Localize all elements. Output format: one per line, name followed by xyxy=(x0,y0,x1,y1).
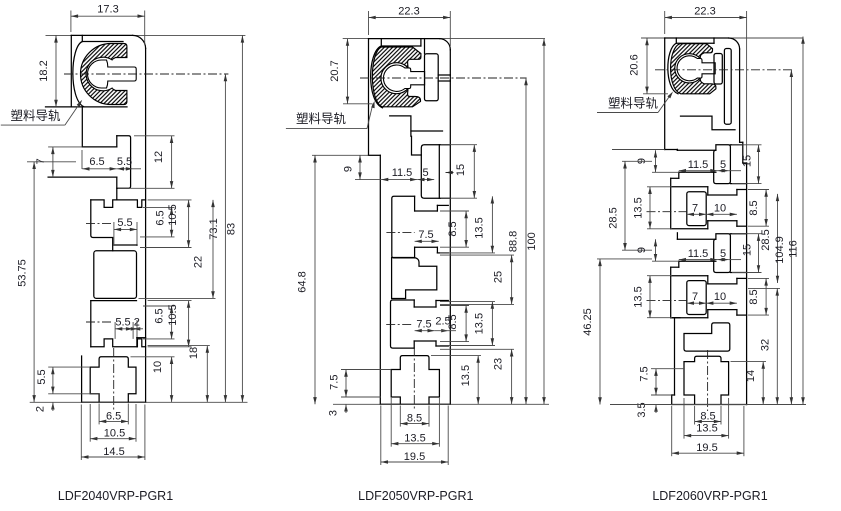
profile P1 block C square xyxy=(94,251,137,299)
profile P3 bottom cross slot xyxy=(684,356,729,404)
svg-text:11.5: 11.5 xyxy=(392,167,413,179)
dim 8.5 tooth3 P2 xyxy=(440,306,469,342)
plastic guide rail hatched C-section P2 xyxy=(372,47,424,107)
svg-text:7: 7 xyxy=(35,158,47,164)
dim 64.8 P2 xyxy=(297,155,317,404)
svg-text:3: 3 xyxy=(328,410,340,416)
svg-text:7.5: 7.5 xyxy=(639,366,651,381)
profile P1 block B inner slot xyxy=(114,222,137,246)
profile P3 housing xyxy=(668,38,714,94)
profile P1 block B outline xyxy=(91,200,146,251)
profile P1 T-slot lower lip and 7-dim extension xyxy=(48,177,117,200)
svg-text:13.5: 13.5 xyxy=(474,313,486,334)
profile P1 block D outline xyxy=(91,301,146,347)
dim 83 P1 xyxy=(226,35,245,402)
svg-text:5.5: 5.5 xyxy=(117,156,132,168)
svg-text:28.5: 28.5 xyxy=(608,207,620,228)
dim 3 P2 xyxy=(328,404,348,416)
centerline P1 block B xyxy=(86,223,113,225)
svg-text:14: 14 xyxy=(745,370,757,382)
dim 17.3 top width P1 xyxy=(71,3,145,45)
dim 5.5 and 2 block D P1 xyxy=(115,317,143,331)
profile P2 right side slot block xyxy=(421,145,450,199)
svg-text:15: 15 xyxy=(742,244,754,256)
svg-text:9: 9 xyxy=(343,166,355,172)
centerline P2 cross vertical xyxy=(413,347,415,410)
svg-text:28.5: 28.5 xyxy=(760,229,772,250)
profile P3 left edge between units xyxy=(671,150,680,318)
dim 22.3 P3 xyxy=(665,5,747,160)
dim 18.2 P1 xyxy=(38,35,58,107)
svg-text:5: 5 xyxy=(720,159,726,171)
dim 2 P1 xyxy=(35,402,55,412)
profile P1 top edge and 17.3/83 extension line xyxy=(46,35,246,48)
svg-text:7: 7 xyxy=(692,202,698,214)
dim 15 P2 xyxy=(441,145,477,199)
profile P2 step under rail section xyxy=(369,155,381,404)
bottom reference line P3 xyxy=(610,404,806,406)
dim 22.3 P2 xyxy=(369,5,451,46)
dim 15 unit2 P3 xyxy=(732,234,762,273)
dim 104.9 P3 xyxy=(774,70,793,405)
dim 88.8 P2 xyxy=(508,78,528,404)
svg-text:10: 10 xyxy=(714,291,726,303)
dim 116 P3 xyxy=(788,37,805,405)
dim 100 P2 xyxy=(526,39,546,405)
svg-text:10.5: 10.5 xyxy=(104,428,125,440)
dim 20.7 P2 xyxy=(329,39,372,104)
dim 13.5 unit1 P3 xyxy=(633,187,673,229)
profile P1 T-slot upper lip xyxy=(82,136,117,147)
svg-text:83: 83 xyxy=(226,223,238,235)
dim 8.5 tooth1 P2 xyxy=(440,211,469,247)
dim 10 P1 xyxy=(131,357,175,403)
dim 15 unit1 P3 xyxy=(732,145,762,184)
svg-text:20.6: 20.6 xyxy=(629,54,641,75)
svg-text:17.3: 17.3 xyxy=(97,3,118,15)
svg-text:6.5: 6.5 xyxy=(155,210,167,225)
svg-text:25: 25 xyxy=(493,271,505,283)
dim 53.75 P1 xyxy=(17,162,77,402)
dim 7 and 10 unit1 P3 xyxy=(687,202,737,216)
svg-text:13.5: 13.5 xyxy=(696,423,717,435)
profile P1 T-slot cavity xyxy=(117,136,131,189)
dim 9 unit2 P3 xyxy=(636,239,679,261)
dim 7 P1 xyxy=(35,147,82,177)
centerline P2 keyhole horizontal xyxy=(360,77,527,79)
svg-text:22.3: 22.3 xyxy=(398,5,419,17)
dim 8.5 bottom P3 xyxy=(695,406,721,425)
dim 6.5 bottom P1 xyxy=(99,404,128,425)
profile P2 tooth3 cavity xyxy=(391,300,415,348)
svg-text:22.3: 22.3 xyxy=(694,5,715,17)
dim 11.5 and 5 unit1 P3 xyxy=(679,159,741,173)
profile P2 top edge and 100 extension xyxy=(343,39,545,50)
dim 9 P2 xyxy=(312,155,381,179)
svg-text:19.5: 19.5 xyxy=(696,442,717,454)
svg-text:7.5: 7.5 xyxy=(418,229,433,241)
svg-text:13.5: 13.5 xyxy=(474,217,486,238)
centerline P2 tooth1 xyxy=(386,231,414,233)
svg-text:6.5: 6.5 xyxy=(89,156,104,168)
dim 7.5 and 2.5 tooth3 P2 xyxy=(415,316,456,333)
svg-text:116: 116 xyxy=(788,240,800,258)
svg-text:13.5: 13.5 xyxy=(404,433,425,445)
profile P2 under-rail steps xyxy=(390,116,443,155)
dim 46.25 P3 xyxy=(582,259,652,405)
svg-text:19.5: 19.5 xyxy=(404,451,425,463)
svg-text:88.8: 88.8 xyxy=(508,231,520,252)
centerline P3 cross vertical xyxy=(707,350,709,411)
profile P1 bottom edge xyxy=(82,401,146,403)
svg-text:5.5: 5.5 xyxy=(115,317,130,329)
svg-text:5: 5 xyxy=(422,167,428,179)
svg-text:8.5: 8.5 xyxy=(700,411,715,423)
svg-text:13.5: 13.5 xyxy=(460,365,472,386)
part number label P2 xyxy=(358,489,473,503)
dim 32 P3 xyxy=(748,288,780,404)
svg-text:LDF2040VRP-PGR1: LDF2040VRP-PGR1 xyxy=(58,489,173,503)
svg-text:8.5: 8.5 xyxy=(447,221,459,236)
dim 5.5 bottom left P1 xyxy=(36,367,100,394)
profile P3 tooth unit 2 xyxy=(647,233,747,318)
dim 13.5 bottom P2 xyxy=(391,398,439,447)
svg-text:8.5: 8.5 xyxy=(447,314,459,329)
profile P3 under-rail steps xyxy=(681,116,736,130)
bottom reference line P1 xyxy=(30,401,248,403)
svg-text:LDF2050VRP-PGR1: LDF2050VRP-PGR1 xyxy=(358,489,473,503)
dim 13.5 bottom P3 xyxy=(684,398,729,439)
dim 7.5 bottom P3 xyxy=(639,366,685,395)
dim 13.5 stem P2 xyxy=(431,356,481,405)
centerline P2 tooth3 xyxy=(386,323,413,325)
svg-text:22: 22 xyxy=(193,256,205,268)
dim 6.5 block B P1 xyxy=(140,207,175,237)
svg-text:100: 100 xyxy=(526,232,538,250)
profile P3 right edge lower xyxy=(746,163,748,405)
profile P2 tooth2 block xyxy=(392,258,437,299)
svg-text:11.5: 11.5 xyxy=(688,159,709,171)
dim 9 unit1 P3 xyxy=(612,150,679,173)
profile P1 left ledge edge xyxy=(81,107,83,147)
part number label P3 xyxy=(652,489,767,503)
svg-text:6.5: 6.5 xyxy=(154,308,166,323)
dim 73.1 P1 xyxy=(208,74,227,402)
dim 8.5 bottom P2 xyxy=(400,406,429,427)
profile P3 keyhole T channel and side channel xyxy=(714,49,731,125)
dim 8.5 unit2 P3 xyxy=(748,278,769,315)
svg-text:7.5: 7.5 xyxy=(416,318,431,330)
svg-text:2: 2 xyxy=(35,406,47,412)
profile P3 left edge upper xyxy=(664,38,666,150)
centerline P1 keyhole horizontal xyxy=(64,73,228,75)
svg-text:46.25: 46.25 xyxy=(582,308,594,336)
profile P1 block D inner slot xyxy=(115,320,137,339)
svg-text:10.5: 10.5 xyxy=(167,204,179,225)
svg-text:10: 10 xyxy=(714,202,726,214)
dim 18 P1 xyxy=(148,346,210,403)
profile P3 tooth unit 1 xyxy=(647,145,747,229)
profile P2 right edge xyxy=(449,50,451,405)
svg-text:15: 15 xyxy=(455,164,467,176)
profile P1 bottom cross slot xyxy=(90,357,136,403)
svg-text:5.5: 5.5 xyxy=(36,369,48,384)
label plastic guide rail P2 xyxy=(286,101,375,129)
profile P2 tooth1 mouth lips xyxy=(415,205,449,253)
svg-text:18.2: 18.2 xyxy=(38,60,50,81)
svg-text:13.5: 13.5 xyxy=(633,197,645,218)
svg-text:104.9: 104.9 xyxy=(774,236,786,264)
svg-text:23: 23 xyxy=(493,358,505,370)
svg-text:7: 7 xyxy=(692,291,698,303)
dim 28.5 left P3 xyxy=(608,161,653,250)
dim 19.5 bottom P2 xyxy=(381,406,448,466)
svg-text:7.5: 7.5 xyxy=(328,375,340,390)
plastic guide rail hatched C-section P1 xyxy=(80,43,136,104)
dim 10.5 block D P1 xyxy=(148,301,192,347)
dim 7.5 bottom left P2 xyxy=(328,370,391,398)
dim 22 P1 xyxy=(139,200,216,299)
profile P2 bottom edge xyxy=(380,403,450,405)
svg-text:18: 18 xyxy=(188,347,200,359)
profile P1 bottom left edge xyxy=(82,338,146,403)
profile P2 left edge upper xyxy=(368,39,370,156)
dim 28.5 right P3 xyxy=(760,194,779,283)
dim 23 P2 xyxy=(440,349,514,404)
svg-text:9: 9 xyxy=(636,247,648,253)
svg-text:15: 15 xyxy=(742,155,754,167)
dim 10.5 block B P1 xyxy=(140,200,192,248)
part number label P1 xyxy=(58,489,173,503)
profile P1 right edge xyxy=(145,48,147,402)
profile P2 tooth3 mouth lips xyxy=(414,301,448,347)
dim 6.5 and 5.5 slot P1 xyxy=(82,150,141,171)
svg-text:12: 12 xyxy=(153,151,165,163)
dim 19.5 bottom P3 xyxy=(672,406,744,456)
dim 11.5 and 5 P2 xyxy=(381,167,453,181)
dim 13.5 tooth1 P2 xyxy=(440,196,495,253)
dim 12 P1 xyxy=(118,136,175,189)
centerline P1 bottom cross vertical xyxy=(113,348,115,411)
dim 25 P2 xyxy=(440,255,514,304)
label plastic guide rail P1 xyxy=(1,100,82,125)
profile P2 housing xyxy=(371,39,421,108)
profile P1 left edge upper section xyxy=(70,35,72,107)
svg-text:14.5: 14.5 xyxy=(103,446,124,458)
dim 5.5 block B P1 xyxy=(114,217,137,231)
svg-text:32: 32 xyxy=(760,339,772,351)
svg-text:LDF2060VRP-PGR1: LDF2060VRP-PGR1 xyxy=(652,489,767,503)
plastic guide rail hatched C-section P3 xyxy=(671,44,716,94)
profile P1 upper section bottom step line xyxy=(46,106,128,108)
dim 11.5 and 5 unit2 P3 xyxy=(679,248,741,262)
centerline P1 block D xyxy=(86,321,113,323)
label plastic guide rail P3 xyxy=(597,92,673,113)
profile P1 guide-rail housing xyxy=(73,35,123,106)
profile P2 keyhole side channel xyxy=(421,39,450,101)
svg-text:13.5: 13.5 xyxy=(633,286,645,307)
profile P3 bottom left edge xyxy=(672,318,675,405)
svg-text:5.5: 5.5 xyxy=(117,217,132,229)
dim 7 and 10 unit2 P3 xyxy=(687,291,737,305)
svg-text:73.1: 73.1 xyxy=(208,218,220,239)
svg-text:11.5: 11.5 xyxy=(688,248,709,260)
dim 14.5 bottom P1 xyxy=(81,405,145,461)
svg-text:塑料导轨: 塑料导轨 xyxy=(296,111,347,126)
svg-text:53.75: 53.75 xyxy=(17,259,29,287)
dim 6.5 block D P1 xyxy=(143,306,175,339)
svg-text:2: 2 xyxy=(134,317,140,329)
svg-text:64.8: 64.8 xyxy=(297,271,309,292)
centerline P3 keyhole horizontal xyxy=(655,69,794,71)
dim 13.5 tooth3 P2 xyxy=(440,302,495,346)
dim 10.5 bottom P1 xyxy=(90,404,136,442)
profile P3 top edge and 116 extension xyxy=(641,38,803,49)
dim 7.5 tooth1 P2 xyxy=(415,229,439,243)
svg-text:8.5: 8.5 xyxy=(748,289,760,304)
dim 8.5 unit1 P3 xyxy=(748,190,769,227)
svg-text:10: 10 xyxy=(152,361,164,373)
profile P2 bottom cross slot xyxy=(391,356,439,405)
svg-text:8.5: 8.5 xyxy=(407,413,422,425)
profile P3 right edge upper xyxy=(740,49,747,163)
profile P3 L-shaped block xyxy=(684,323,730,351)
dim 3.5 P3 xyxy=(636,402,658,417)
svg-text:8.5: 8.5 xyxy=(748,200,760,215)
svg-text:塑料导轨: 塑料导轨 xyxy=(10,108,61,123)
dim 13.5 unit2 P3 xyxy=(633,276,673,318)
profile P2 tooth1 cavity xyxy=(392,196,415,258)
svg-text:6.5: 6.5 xyxy=(106,411,121,423)
svg-text:20.7: 20.7 xyxy=(329,60,341,81)
dim 14 P3 xyxy=(731,362,767,405)
bottom reference line P2 xyxy=(333,403,549,405)
profile P3 step under rail xyxy=(665,149,678,151)
svg-text:10.5: 10.5 xyxy=(167,304,179,325)
dim 20.6 P3 xyxy=(629,38,669,94)
svg-text:塑料导轨: 塑料导轨 xyxy=(608,96,659,111)
svg-text:5: 5 xyxy=(720,248,726,260)
profile P3 bottom edge xyxy=(672,404,747,406)
